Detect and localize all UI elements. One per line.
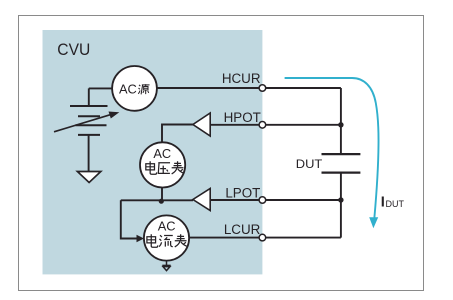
wire source symbol to ground xyxy=(88,135,90,172)
svg-text:AC: AC xyxy=(158,219,176,234)
wire HCUR to DUT branch xyxy=(266,87,341,89)
wire HPOT to DUT branch xyxy=(266,124,341,126)
wire LPOT buffer out xyxy=(210,199,259,201)
wire HPOT buffer out xyxy=(210,124,259,126)
svg-text:AC: AC xyxy=(153,146,171,161)
AC source circle U3 xyxy=(112,66,157,111)
wire AC source right to HCUR xyxy=(157,87,259,89)
op-amp buffer U2 (LPOT) xyxy=(193,189,210,211)
ground (source) xyxy=(77,172,100,183)
wire LCUR to DUT branch xyxy=(266,237,341,239)
junction HPOT/DUT xyxy=(338,122,343,127)
svg-text:DUT: DUT xyxy=(386,199,405,209)
AC source symbol V1 plates xyxy=(70,106,108,135)
AC source label hanzi 源 xyxy=(138,84,149,94)
svg-text:DUT: DUT xyxy=(296,157,323,171)
current arrowhead xyxy=(369,217,378,228)
wire voltmeter bottom xyxy=(161,188,163,200)
CVU shaded region xyxy=(43,30,263,274)
junction LPOT/DUT xyxy=(338,197,343,202)
wire LPOT horizontal xyxy=(121,199,193,201)
wire DUT branch vertical upper xyxy=(340,88,342,154)
wire AC source left xyxy=(89,87,113,89)
wire LPOT to DUT branch xyxy=(266,199,341,201)
junction voltmeter/LPOT xyxy=(159,199,164,204)
voltmeter label hanzi 电压表 xyxy=(146,161,184,174)
ammeter U5 circle xyxy=(144,215,189,260)
svg-text:AC: AC xyxy=(119,81,137,96)
variable arrow across source xyxy=(54,112,119,132)
terminal HPOT xyxy=(259,122,266,129)
terminal LCUR xyxy=(259,234,266,241)
wire DUT branch vertical lower xyxy=(340,173,342,238)
voltmeter U4 circle xyxy=(140,142,185,187)
capacitor DUT plate top xyxy=(322,153,361,155)
terminal LPOT xyxy=(259,197,266,204)
arrow into ammeter xyxy=(137,235,145,243)
wire down to ammeter arrow xyxy=(121,200,138,238)
svg-text:LPOT: LPOT xyxy=(225,185,260,200)
svg-text:LCUR: LCUR xyxy=(224,222,261,237)
svg-text:HCUR: HCUR xyxy=(222,71,261,86)
wire down to source symbol xyxy=(88,88,90,106)
current path arrow (cyan) xyxy=(285,78,379,218)
op-amp buffer U1 (HPOT) xyxy=(193,113,210,136)
svg-text:HPOT: HPOT xyxy=(224,110,261,125)
ammeter label hanzi 电流表 xyxy=(147,234,187,247)
terminal HCUR xyxy=(259,85,266,92)
capacitor DUT plate bottom xyxy=(322,172,361,174)
wire HPOT buffer tip to voltmeter xyxy=(162,125,193,143)
ground (ammeter) xyxy=(162,261,170,271)
svg-text:I: I xyxy=(381,194,385,210)
wire ammeter right to LCUR xyxy=(189,237,259,239)
svg-text:CVU: CVU xyxy=(57,40,90,59)
